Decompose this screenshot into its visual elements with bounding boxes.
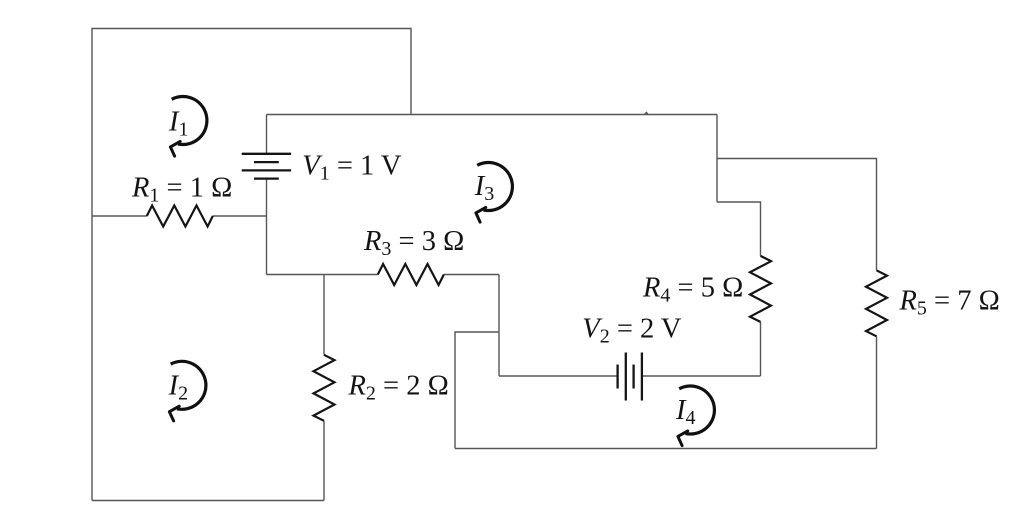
svg-text:R2 = 2 Ω: R2 = 2 Ω	[348, 370, 449, 404]
wire: R2 bottom lead	[323, 421, 325, 501]
wire: V1 bottom lead	[266, 180, 268, 275]
wire: R3 left lead	[267, 274, 378, 276]
mesh current arrow I2 arc	[171, 361, 206, 409]
svg-text:I2: I2	[168, 371, 189, 405]
wire: R4 bottom lead	[760, 322, 762, 376]
mesh current arrow I1 head	[170, 141, 180, 156]
wire: V2 right lead	[643, 375, 761, 377]
mesh current arrow I3 arc	[477, 163, 512, 211]
svg-text:V1 = 1 V: V1 = 1 V	[302, 150, 402, 184]
wire: V1 top lead	[266, 115, 268, 154]
svg-text:I4: I4	[675, 395, 696, 429]
svg-text:R1 = 1 Ω: R1 = 1 Ω	[131, 172, 232, 206]
svg-text:I1: I1	[168, 107, 189, 141]
svg-text:R5 = 7 Ω: R5 = 7 Ω	[899, 286, 1000, 320]
wire: R3 right lead	[444, 274, 499, 276]
svg-text:R4 = 5 Ω: R4 = 5 Ω	[642, 273, 743, 307]
wire: right drop at x=717	[716, 115, 718, 203]
wire: bottom of I4 loop	[455, 448, 877, 450]
battery V2 short bar	[632, 365, 634, 389]
wire: branch to R5 top	[717, 159, 877, 271]
resistor R5 zigzag	[866, 270, 887, 336]
wire: R5 bottom lead	[876, 336, 878, 448]
wire: bottom of I2 loop	[92, 500, 324, 502]
wire: R1 right lead	[213, 215, 267, 217]
battery V2 short bar (left)	[616, 365, 618, 389]
battery V2 tall bar	[625, 353, 627, 401]
battery V1 long plate (top)	[242, 153, 291, 155]
wire: top of I3 loop	[267, 114, 718, 116]
mesh current arrow I4 arc	[679, 386, 714, 434]
resistor R3 zigzag	[378, 264, 444, 285]
wire: V2 left lead	[499, 375, 617, 377]
resistor R2 zigzag	[314, 355, 335, 421]
battery V2 tall bar (right)	[641, 353, 643, 401]
wire: branch to R4 top	[717, 202, 761, 256]
wire: R1 left lead	[92, 215, 147, 217]
mesh current arrow I1 arc	[172, 97, 207, 145]
battery V1 long plate	[242, 169, 291, 171]
mesh current arrow I3 head	[476, 207, 486, 222]
svg-text:I3: I3	[474, 171, 495, 205]
resistor R4 zigzag	[750, 256, 771, 322]
wire: left mesh outer rectangle left/top/right sides	[92, 29, 411, 501]
resistor R1 zigzag	[147, 206, 213, 227]
wire: junction notch	[645, 113, 649, 115]
wire: R2 top lead	[323, 275, 325, 355]
wire: x=499 vertical from R3 to V2	[498, 275, 500, 377]
wire: step to x=455 and down	[455, 332, 499, 449]
mesh current arrow I2 head	[169, 406, 179, 421]
svg-text:V2 = 2 V: V2 = 2 V	[582, 314, 682, 348]
svg-text:R3 = 3 Ω: R3 = 3 Ω	[363, 226, 464, 260]
mesh current arrow I4 head	[678, 431, 688, 446]
battery V1 short plate (bottom)	[254, 177, 279, 179]
battery V1 short plate	[254, 161, 279, 163]
